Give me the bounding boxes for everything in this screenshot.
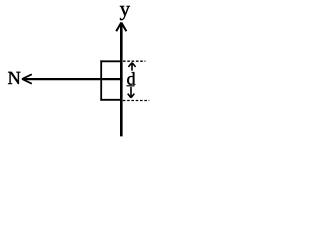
slab rectangle bottom edge	[100, 99, 122, 101]
axis line y (vertical)	[120, 24, 123, 136]
underline of d	[127, 85, 135, 87]
dimension arrow down	[128, 87, 135, 98]
dotted extension line top	[123, 60, 145, 62]
label N	[8, 72, 20, 84]
dotted extension line bottom	[123, 100, 150, 102]
label y (vertical axis)	[120, 6, 130, 20]
slab rectangle top edge	[100, 60, 122, 62]
label d	[127, 72, 135, 85]
arrowhead left (N direction)	[22, 74, 32, 83]
wire N-line (horizontal line to slab)	[23, 78, 123, 80]
slab rectangle left edge	[100, 60, 102, 100]
dimension arrow up	[128, 63, 135, 71]
arrowhead up (y axis)	[116, 23, 126, 32]
